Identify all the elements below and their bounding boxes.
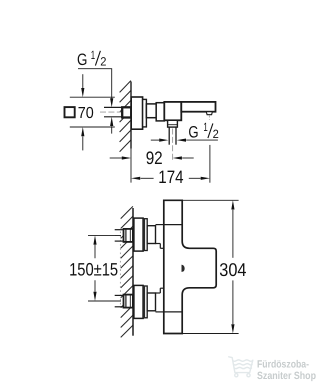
- svg-text:174: 174: [158, 167, 183, 187]
- spout outlet nub: [206, 112, 212, 115]
- svg-text:G: G: [188, 123, 198, 141]
- valve ring section: [156, 103, 164, 121]
- supply pipe behind wall: [104, 106, 123, 108]
- wall hatching (side view): [120, 81, 131, 93]
- svg-text:150±15: 150±15: [69, 260, 118, 280]
- dimension 150±15: [93, 235, 96, 244]
- connection pipe section: [146, 104, 156, 118]
- svg-text:304: 304: [219, 259, 246, 280]
- supply elbow in wall: [122, 107, 131, 117]
- wall face line (front view): [132, 208, 134, 336]
- hot inlet escutcheon cap: [134, 218, 143, 251]
- svg-text:2: 2: [213, 127, 219, 141]
- thermostat body (front view): [164, 200, 216, 333]
- svg-text:Fürdöszoba-: Fürdöszoba-: [257, 359, 309, 371]
- cold inlet centerline: [115, 300, 134, 302]
- coupling nut under body: [168, 120, 178, 127]
- watermark shop logo (cart): [229, 357, 253, 377]
- dimension arrows 70: [82, 74, 84, 88]
- shower outlet centerline: [172, 129, 174, 161]
- cold inlet boss line through body: [163, 311, 182, 313]
- svg-text:G: G: [77, 51, 87, 69]
- lever mark on body: [182, 265, 184, 271]
- square symbol (70 dim): [65, 107, 75, 117]
- svg-text:70: 70: [78, 105, 94, 122]
- cold inlet escutcheon cap: [134, 285, 143, 318]
- dimension 92: [110, 157, 122, 159]
- hot inlet boss line through body: [163, 224, 182, 226]
- svg-text:1: 1: [203, 120, 208, 134]
- svg-text:2: 2: [100, 55, 106, 69]
- escutcheon plate (side view): [131, 97, 142, 129]
- spout: [181, 102, 215, 112]
- extension lines 304: [182, 199, 238, 201]
- escutcheon lip ring: [143, 99, 147, 127]
- valve body (side view): [164, 102, 181, 120]
- wall face line (side view): [130, 82, 132, 149]
- wall hatching (front view): [121, 206, 133, 218]
- dimension 174: [131, 177, 140, 180]
- arrows G 1/2 outlet: [151, 139, 159, 141]
- extension lines for 70 dim: [70, 96, 115, 98]
- svg-text:92: 92: [146, 148, 163, 168]
- arrows G 1/2 top: [110, 98, 113, 107]
- inlet axis centerline: [119, 232, 121, 305]
- leader line G 1/2 top: [78, 68, 112, 70]
- supply pipe centerline: [100, 111, 133, 113]
- dimension 304: [231, 200, 234, 209]
- svg-text:Szaniter Shop: Szaniter Shop: [257, 370, 316, 382]
- hot water inlet nut: [115, 229, 124, 231]
- extension lines 150±15: [88, 234, 121, 236]
- shower outlet pipe: [168, 127, 170, 145]
- hot inlet centerline: [115, 234, 134, 236]
- cold water inlet nut: [115, 294, 124, 296]
- svg-text:1: 1: [91, 48, 96, 62]
